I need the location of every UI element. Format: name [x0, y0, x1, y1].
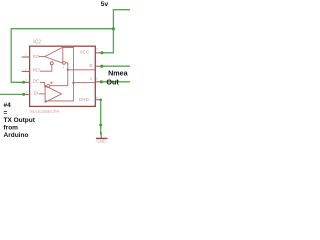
svg-text:5v: 5v: [101, 1, 109, 8]
wire A output: [101, 81, 130, 83]
node internal B junction: [67, 69, 69, 71]
node junction 5v/top rail: [112, 27, 115, 30]
svg-text:Nmea: Nmea: [108, 69, 129, 78]
pin 5 GND stub: [95, 99, 101, 101]
svg-text:4: 4: [25, 90, 27, 94]
svg-text:VCC: VCC: [80, 49, 90, 54]
wire RO to apex: [39, 56, 45, 58]
node GND pin connection: [99, 99, 102, 102]
wire internal B line: [68, 69, 95, 71]
node DI connection: [22, 93, 25, 96]
svg-text:3: 3: [25, 78, 27, 82]
svg-text:TX Output: TX Output: [4, 117, 36, 124]
wire DI to driver base: [39, 93, 46, 95]
pin 4 DI stub: [24, 93, 30, 95]
node B connection: [100, 65, 103, 68]
svg-text:RE/: RE/: [33, 68, 41, 73]
svg-text:2: 2: [25, 67, 27, 71]
svg-text:Out: Out: [106, 77, 119, 86]
svg-text:6: 6: [96, 77, 98, 81]
wire RE/ to bubble: [40, 65, 52, 72]
svg-text:B: B: [89, 63, 92, 68]
wire receiver top input riser (A net): [45, 47, 73, 101]
node VCC connection: [100, 51, 103, 54]
wire DE to driver: [40, 82, 47, 87]
bubble driver inverted output: [47, 85, 50, 88]
plus mark above driver: [50, 81, 53, 84]
svg-text:#4: #4: [4, 102, 12, 109]
wire GND drop: [100, 100, 102, 135]
svg-text:8: 8: [96, 48, 98, 52]
receiver amp triangle: [45, 47, 63, 63]
ground symbol: [100, 132, 102, 138]
wire top rail to left rail down to DE: [11, 29, 113, 83]
svg-text:MAX3468CPA: MAX3468CPA: [30, 109, 60, 114]
pin 7 B stub: [95, 65, 102, 67]
wire DI from left edge: [0, 93, 24, 95]
svg-text:from: from: [4, 124, 19, 131]
node DE connection: [22, 81, 25, 84]
capacitor-like bubble receiver inverting input: [63, 62, 66, 65]
pin 3 DE stub: [24, 81, 30, 83]
wire internal A line: [73, 82, 94, 84]
pin 8 VCC stub: [95, 52, 102, 54]
wire B output: [102, 65, 130, 67]
minus mark below bubble: [63, 66, 64, 68]
svg-text:DI: DI: [34, 90, 39, 95]
svg-text:GND: GND: [79, 97, 90, 102]
node GND wire bendpoint: [99, 124, 102, 127]
bubble RE enable: [50, 62, 53, 65]
op-amp IC2 box: [30, 46, 96, 106]
svg-text:Arduino: Arduino: [4, 132, 29, 139]
wire receiver B input riser: [50, 63, 68, 86]
transistor driver triangle: [45, 86, 61, 103]
svg-text:GND: GND: [97, 139, 106, 144]
node internal A junction: [72, 82, 74, 84]
svg-text:7: 7: [96, 61, 98, 65]
pin 6 A stub: [95, 81, 102, 83]
wire 5V feed from top right: [102, 10, 130, 53]
pin 2 RE/ stub: [22, 70, 30, 72]
svg-text:IC2: IC2: [33, 40, 41, 46]
svg-text:=: =: [4, 109, 8, 116]
svg-text:5: 5: [96, 96, 98, 100]
svg-text:DE: DE: [33, 79, 39, 84]
node A connection: [100, 80, 103, 83]
pin 1 RO stub: [22, 56, 30, 58]
svg-text:1: 1: [25, 52, 27, 56]
